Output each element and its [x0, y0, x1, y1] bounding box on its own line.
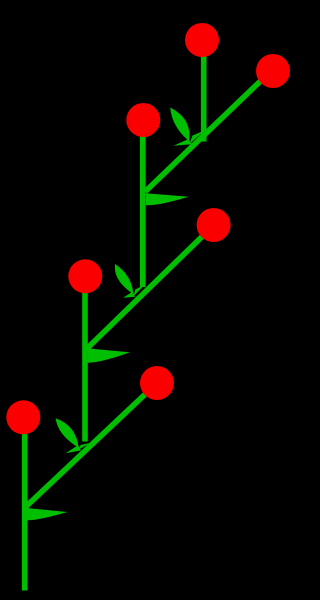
wire: stem segment L7 (main vertical stem from flower F7 through node N6 to base): [22, 417, 28, 591]
wire: stem segment L3 (vertical axis from flower F3 through node N2 to node N3): [140, 120, 146, 287]
node N4 arrowhead (bract arrow at end of L4, pointing left onto L5): [88, 337, 130, 363]
wire: stem segment L5 (vertical axis from flower F5 through node N4 to node N5): [82, 276, 88, 442]
node N2 arrowhead (bract arrow at end of L2, pointing left onto L3): [146, 179, 189, 205]
flower F3 (red circle, upper left): [126, 103, 160, 137]
flower F1 (red circle, top): [185, 23, 219, 57]
node N1 arrowhead (bract arrow at end of L1, pointing down-left): [170, 108, 205, 146]
flower F2 (red circle, top right): [256, 54, 290, 88]
node N3 arrowhead (bract arrow at end of L3, pointing down-left): [115, 264, 145, 298]
wire: stem segment L6 (diagonal axis from flower F6 through node N5 to node N6): [26, 383, 158, 507]
flower F4 (red circle, middle right): [197, 208, 231, 242]
node N6 arrowhead (bract arrow at end of L6, pointing left onto L7): [27, 495, 68, 521]
node N5 arrowhead (bract arrow at end of L5, pointing down-left): [56, 418, 92, 453]
wire: stem segment L4 (diagonal axis from flower F4 through node N3 to node N4): [87, 225, 214, 349]
flower F6 (red circle, lower middle): [140, 366, 174, 400]
flower F7 (red circle, lower left): [6, 400, 40, 434]
wire: stem segment L1 (vertical pedicel of flower F1): [201, 40, 207, 142]
flower F5 (red circle, middle left): [68, 259, 102, 293]
wire: stem segment L2 (diagonal axis from flower F2 through node N1 to node N2): [145, 69, 273, 191]
